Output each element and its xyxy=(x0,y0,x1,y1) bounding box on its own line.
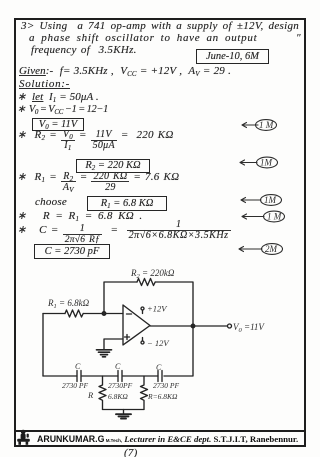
wire: feedback top right segment xyxy=(156,282,194,326)
svg-text:2730PF: 2730PF xyxy=(108,381,133,390)
footer text xyxy=(37,434,298,444)
wire: right vertical down to ladder xyxy=(164,326,193,376)
wire: feedback top left segment xyxy=(104,282,137,313)
output terminal circle xyxy=(228,324,232,328)
ground at + input xyxy=(97,350,112,357)
op-amp minus sign xyxy=(127,313,132,315)
op-amp U1 triangle xyxy=(123,305,150,345)
junction dot: output node xyxy=(191,324,195,328)
wire: bottom rail xyxy=(103,409,145,411)
svg-text:R: R xyxy=(87,390,94,400)
stray quote mark xyxy=(296,33,301,44)
junction dot: inverting input node xyxy=(102,312,106,316)
R2 result box xyxy=(76,159,150,173)
C equation line xyxy=(17,225,231,246)
svg-text:R2 = 220kΩ: R2 = 220kΩ xyxy=(130,268,175,280)
svg-text:− 12V: − 12V xyxy=(147,338,170,348)
C result box xyxy=(34,244,110,259)
let line xyxy=(17,92,99,103)
resistor R2 zigzag xyxy=(137,279,155,286)
svg-text:6.8KΩ: 6.8KΩ xyxy=(108,392,128,401)
svg-text:2730 PF: 2730 PF xyxy=(62,381,88,390)
arrow mark 2M for C box xyxy=(239,244,283,255)
arrow mark 1M for R line xyxy=(242,211,285,222)
Vo equation line xyxy=(17,104,108,115)
output wire xyxy=(150,325,227,327)
question text line 3 xyxy=(31,45,137,56)
Vo result box xyxy=(32,118,84,131)
capacitor C3 plates xyxy=(158,371,162,382)
wire: non-inverting input to ground xyxy=(104,339,123,349)
Solution heading xyxy=(19,79,70,90)
wire: left vertical from R1 down to ladder xyxy=(42,314,44,377)
arrow mark 1M for Vo box xyxy=(242,120,277,131)
resistor R3 vertical zigzag xyxy=(99,376,106,409)
page number xyxy=(124,448,138,457)
capacitor C2 plates xyxy=(118,371,122,382)
resistor R4 vertical zigzag xyxy=(141,376,148,409)
svg-text:+12V: +12V xyxy=(147,304,168,314)
wire: C2 to C1 xyxy=(82,375,118,377)
+12V supply pin xyxy=(142,310,144,314)
svg-text:C: C xyxy=(75,362,81,371)
R2 equation line with fractions xyxy=(17,130,174,151)
question text line 1 xyxy=(21,21,299,32)
wire: R1 to inverting input xyxy=(84,313,124,315)
choose line xyxy=(35,197,67,208)
wire: C3 to C2 xyxy=(123,375,158,377)
svg-text:C: C xyxy=(156,363,162,372)
svg-text:C: C xyxy=(115,362,121,371)
arrow mark 1M for choose R1 box xyxy=(241,195,282,206)
-12V supply pin xyxy=(142,338,144,342)
resistor R1 zigzag xyxy=(65,310,83,317)
R1 equation line xyxy=(17,172,179,193)
capacitor C1 plates xyxy=(77,371,81,382)
question text line 2 xyxy=(29,33,257,44)
svg-text:R1 = 6.8kΩ: R1 = 6.8kΩ xyxy=(47,298,90,310)
R1 result box xyxy=(87,196,167,211)
svg-text:R=6.8KΩ: R=6.8KΩ xyxy=(147,392,178,401)
ground symbol bottom xyxy=(116,414,131,418)
svg-text:2730 PF: 2730 PF xyxy=(153,381,179,390)
footer logo emblem xyxy=(16,429,32,446)
ground stub bottom xyxy=(123,410,125,415)
svg-text:V0 =11V: V0 =11V xyxy=(233,322,265,334)
June box xyxy=(196,49,269,64)
Given line xyxy=(19,66,231,77)
arrow mark 1M for R2 box xyxy=(240,157,278,168)
footer separator xyxy=(16,430,304,432)
R line xyxy=(17,211,142,222)
wire: C1 to left vertical xyxy=(43,375,77,377)
wire: R1 left lead xyxy=(43,313,65,315)
op-amp plus sign xyxy=(125,335,130,340)
